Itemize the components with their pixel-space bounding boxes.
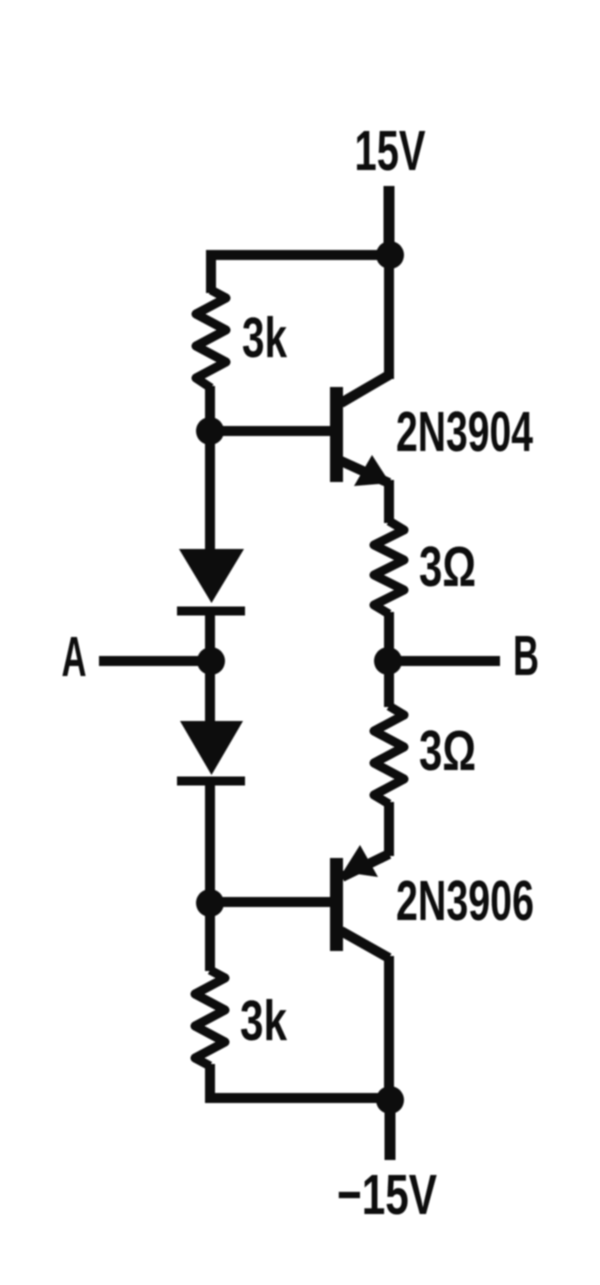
wire left stub to R1 (206, 250, 216, 293)
wire node A horizontal (99, 656, 211, 666)
node bottom junction dot (376, 1086, 404, 1114)
node base junction dot Q1 (196, 417, 224, 445)
svg-text:3k: 3k (240, 989, 287, 1053)
svg-text:3k: 3k (242, 306, 287, 370)
svg-text:A: A (62, 625, 87, 689)
wire Q1 collector vertical (384, 255, 394, 379)
wire Q2 collector vertical (384, 956, 394, 1101)
transistor Q1 emitter diagonal (341, 461, 389, 483)
wire junction to R4 (205, 903, 215, 971)
svg-text:3Ω: 3Ω (419, 535, 476, 599)
svg-text:3Ω: 3Ω (419, 719, 476, 783)
node top junction dot (376, 241, 404, 269)
wire D2 to junction Q2 (205, 781, 215, 903)
diode D1 cathode bar (177, 607, 245, 616)
transistor Q2 base bar (330, 858, 343, 951)
resistor R2 3ohm (374, 521, 404, 614)
svg-text:15V: 15V (355, 119, 426, 183)
resistor R4 3k (195, 970, 225, 1066)
node B junction dot (374, 647, 402, 675)
diode D2 cathode bar (177, 777, 245, 786)
wire R2 to node B (384, 612, 394, 661)
svg-text:−15V: −15V (337, 1163, 437, 1227)
svg-text:2N3904: 2N3904 (396, 400, 533, 464)
wire -15V supply vertical (385, 1100, 396, 1160)
wire Q1 emitter to R2 (384, 480, 394, 523)
transistor Q2 collector diagonal (341, 931, 389, 958)
transistor Q1 collector diagonal (341, 375, 389, 403)
node A junction dot (197, 647, 225, 675)
resistor R3 3ohm (374, 706, 404, 804)
wire node B to R3 (384, 661, 394, 707)
wire base Q1 horizontal (210, 426, 331, 436)
wire R1 bottom to junction (205, 386, 215, 432)
transistor Q1 base bar (330, 387, 343, 482)
wire junction to D1 (205, 431, 215, 551)
wire R3 to Q2 emitter (384, 802, 394, 856)
node base junction dot Q2 (196, 889, 224, 917)
wire D1 to node A (205, 611, 215, 661)
wire R4 bottom left (205, 1064, 215, 1098)
resistor R1 3k (196, 290, 226, 388)
wire base Q2 horizontal (210, 897, 331, 907)
transistor Q2 emitter diagonal (342, 854, 389, 877)
transistor Q1 emitter arrow (354, 455, 390, 486)
svg-text:2N3906: 2N3906 (396, 869, 534, 933)
diode D2 (180, 721, 243, 775)
wire bottom horizontal (205, 1093, 390, 1103)
diode D1 (179, 549, 244, 603)
svg-text:B: B (513, 624, 539, 688)
wire node A to D2 (205, 661, 215, 723)
wire node B horizontal (388, 656, 500, 666)
wire top horizontal (206, 250, 390, 260)
transistor Q2 emitter arrow (343, 845, 378, 877)
wire 15V supply vertical (384, 186, 395, 258)
